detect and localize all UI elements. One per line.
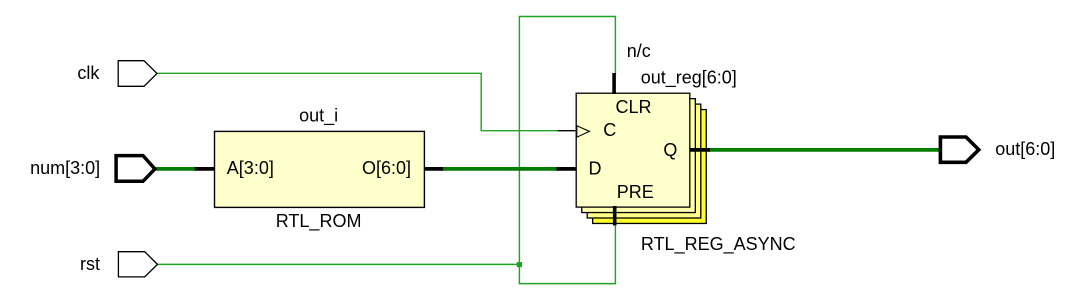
svg-text:clk: clk xyxy=(77,63,100,83)
svg-text:out[6:0]: out[6:0] xyxy=(995,139,1055,159)
svg-text:D: D xyxy=(589,159,602,179)
register pin C stub xyxy=(558,130,577,132)
svg-text:RTL_REG_ASYNC: RTL_REG_ASYNC xyxy=(641,234,796,255)
svg-text:O[6:0]: O[6:0] xyxy=(362,158,411,178)
svg-text:CLR: CLR xyxy=(616,97,652,117)
register pin Q stub xyxy=(690,148,711,152)
svg-text:C: C xyxy=(603,120,616,140)
ROM pin A[3:0] stub xyxy=(195,167,215,171)
input port clk xyxy=(118,61,157,87)
junction rst net xyxy=(517,262,522,267)
register pin D stub xyxy=(557,167,577,171)
input port num[3:0] xyxy=(116,156,155,182)
ROM out_i block xyxy=(215,131,425,207)
bus register Q to out port xyxy=(709,148,939,152)
svg-text:Q: Q xyxy=(663,140,677,160)
svg-text:out_i: out_i xyxy=(299,106,338,127)
register pin CLR stub xyxy=(612,73,616,94)
svg-text:RTL_ROM: RTL_ROM xyxy=(276,211,362,232)
svg-text:n/c: n/c xyxy=(627,41,651,61)
bus ROM O to register D xyxy=(441,167,558,171)
register pin C clock triangle xyxy=(577,126,590,138)
wire rst to PRE bottom loop xyxy=(519,224,615,284)
wire rst net horizontal xyxy=(158,263,520,265)
svg-text:A[3:0]: A[3:0] xyxy=(227,158,274,178)
register stack shadow rect 3 xyxy=(587,104,701,218)
svg-text:PRE: PRE xyxy=(617,182,654,202)
output port out[6:0] xyxy=(940,137,978,162)
svg-text:rst: rst xyxy=(80,254,100,274)
register out_reg main block xyxy=(576,93,690,207)
ROM pin O[6:0] stub xyxy=(424,167,443,171)
wire rst to CLR top loop xyxy=(519,17,615,265)
register stack shadow rect 2 xyxy=(582,99,696,213)
register pin PRE stub xyxy=(613,206,617,225)
svg-text:out_reg[6:0]: out_reg[6:0] xyxy=(641,67,737,88)
input port rst xyxy=(118,252,157,277)
svg-text:num[3:0]: num[3:0] xyxy=(30,158,100,178)
register stack shadow rect 4 xyxy=(593,110,707,224)
bus num to ROM A xyxy=(155,167,196,171)
wire clk net xyxy=(157,73,559,130)
